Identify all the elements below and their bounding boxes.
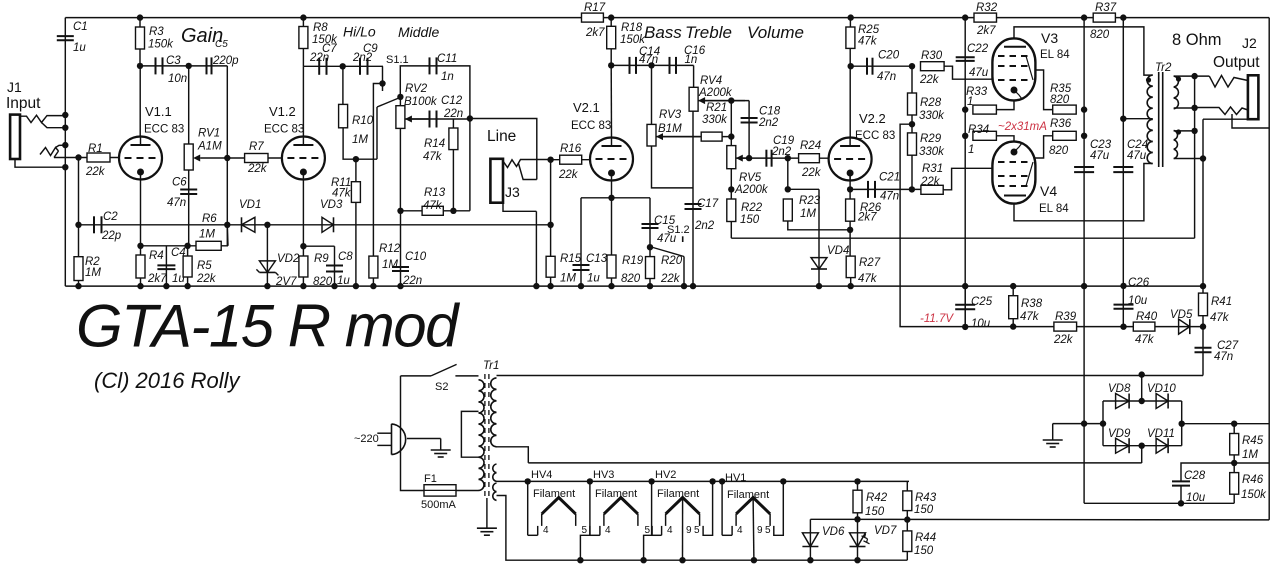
- svg-text:1M: 1M: [1242, 449, 1258, 461]
- wire R12 drop: [372, 256, 374, 286]
- wire R43/R44 junction: [906, 511, 908, 531]
- junction V2.1 cathode 3: [578, 283, 584, 289]
- ground mains: [431, 449, 451, 451]
- svg-text:Volume: Volume: [747, 23, 804, 42]
- wire R13 row: [401, 210, 470, 212]
- svg-text:C12: C12: [441, 95, 463, 107]
- wire Tr2 secondary bottom: [1174, 158, 1203, 160]
- wire R15 drop: [550, 225, 552, 286]
- svg-text:Hi/Lo: Hi/Lo: [343, 24, 376, 40]
- svg-text:R20: R20: [661, 255, 683, 267]
- wire RV1 wiper row / R7 row: [227, 157, 281, 159]
- svg-text:R15: R15: [560, 253, 582, 265]
- svg-text:1M: 1M: [382, 259, 398, 271]
- capacitor C15: [642, 223, 659, 225]
- tube V2.2: [829, 138, 872, 181]
- zener diode VD2: [259, 261, 275, 273]
- wire R33 to V3 cathode: [996, 100, 1014, 109]
- junction output grids 1: [962, 14, 968, 20]
- svg-text:330k: 330k: [702, 114, 728, 126]
- wire R38 top stub: [1012, 286, 1014, 296]
- wire R42 bottom to LEDs: [857, 513, 859, 520]
- junction B+ right 5: [1120, 116, 1126, 122]
- svg-text:V4: V4: [1040, 183, 1057, 199]
- switch S2: [431, 364, 457, 376]
- wire R6 riser: [226, 225, 229, 246]
- svg-text:47k: 47k: [1135, 334, 1155, 346]
- wire Tr2 secondary taps: [1174, 107, 1195, 109]
- svg-text:R34: R34: [968, 124, 989, 136]
- junction tone2 2: [728, 133, 734, 139]
- svg-text:ECC 83: ECC 83: [571, 120, 611, 132]
- junction V2.2 3: [816, 283, 822, 289]
- svg-text:R27: R27: [859, 257, 881, 269]
- junction secondary 1: [1191, 73, 1197, 79]
- wire RV3 column: [651, 65, 653, 124]
- svg-text:VD5: VD5: [1170, 309, 1193, 321]
- junction bias row 2: [1120, 324, 1126, 330]
- svg-text:22k: 22k: [558, 169, 579, 181]
- svg-text:Output: Output: [1213, 54, 1260, 71]
- junction output grids 2: [962, 106, 968, 112]
- svg-text:R30: R30: [921, 50, 943, 62]
- svg-text:VD1: VD1: [239, 199, 261, 211]
- wire R26 to R27: [849, 221, 851, 256]
- svg-text:150k: 150k: [620, 34, 646, 46]
- resistor R15: [546, 256, 555, 277]
- wire screens column: [1083, 18, 1085, 504]
- resistor R43: [903, 491, 912, 511]
- resistor R23: [783, 199, 792, 221]
- svg-text:2n2: 2n2: [352, 52, 373, 64]
- resistor R40: [1133, 322, 1155, 331]
- svg-text:Bass: Bass: [644, 23, 682, 42]
- svg-text:J3: J3: [505, 184, 520, 200]
- junction secondary 2: [1191, 105, 1197, 111]
- resistor R46: [1230, 473, 1239, 495]
- filament HV4: [527, 481, 529, 535]
- tube V1.2: [282, 137, 325, 180]
- junction bridge 5: [1100, 420, 1106, 426]
- svg-text:R40: R40: [1136, 311, 1158, 323]
- resistor R6: [196, 241, 221, 250]
- svg-text:2k7: 2k7: [857, 212, 877, 224]
- wire C21 row to R31: [850, 188, 944, 190]
- wire C20 row V2.2 anode: [850, 65, 912, 67]
- svg-text:1M: 1M: [352, 134, 368, 146]
- wire V2.2 anode riser: [849, 48, 851, 138]
- resistor R22: [727, 199, 736, 222]
- wire V1.2 anode riser: [302, 66, 304, 137]
- svg-text:V2.1: V2.1: [573, 100, 600, 115]
- svg-text:220p: 220p: [212, 55, 239, 67]
- svg-text:R21: R21: [706, 102, 727, 114]
- svg-text:1M: 1M: [800, 208, 816, 220]
- svg-text:R42: R42: [866, 492, 888, 504]
- junction B+ right 2: [1120, 14, 1126, 20]
- junction J1 column 1: [62, 112, 68, 118]
- wire C13 branch: [580, 198, 582, 286]
- svg-text:2n2: 2n2: [694, 220, 715, 232]
- wire RV5 column: [730, 101, 732, 146]
- svg-text:47u: 47u: [969, 67, 989, 79]
- wire RV3 bottom to C17: [652, 146, 694, 188]
- svg-text:R28: R28: [920, 97, 942, 109]
- resistor R9: [299, 256, 308, 277]
- svg-text:HV1: HV1: [725, 472, 746, 484]
- capacitor C24: [1113, 166, 1133, 168]
- svg-text:2n2: 2n2: [758, 117, 779, 129]
- diode VD1: [242, 217, 255, 232]
- capacitor C9: [359, 58, 361, 75]
- svg-text:47n: 47n: [880, 191, 899, 203]
- wire R30 jog to V3 grid: [944, 66, 992, 79]
- svg-text:HV4: HV4: [531, 469, 552, 481]
- wire cathode node row V1.1: [141, 245, 188, 247]
- svg-text:5: 5: [694, 525, 700, 536]
- junction bridge 6: [1179, 421, 1185, 427]
- svg-text:R8: R8: [313, 22, 328, 34]
- resistor R12: [369, 256, 378, 278]
- wire NFB long row: [731, 237, 1194, 239]
- svg-text:1u: 1u: [587, 273, 600, 285]
- wire R10 bottom row: [343, 128, 377, 159]
- resistor R14: [449, 128, 458, 150]
- resistor R27: [846, 256, 855, 278]
- wire heater mid-tap jog: [497, 447, 529, 463]
- svg-text:Tr1: Tr1: [483, 360, 499, 372]
- junction line area 3: [533, 283, 539, 289]
- svg-text:2k7: 2k7: [147, 273, 167, 285]
- svg-text:RV4: RV4: [700, 75, 722, 87]
- wire V4 screen lead: [1035, 136, 1053, 158]
- svg-text:C20: C20: [878, 50, 900, 62]
- wire R9/C8 node row: [303, 245, 334, 247]
- resistor R26: [846, 199, 855, 221]
- wire R6 row: [188, 245, 228, 247]
- svg-text:22k: 22k: [85, 166, 106, 178]
- junction dots heater: [525, 478, 531, 484]
- wire R4 drop: [140, 246, 142, 286]
- resistor R32: [974, 13, 997, 22]
- svg-text:VD7: VD7: [874, 525, 897, 537]
- junction V2.1 cathode 4: [608, 283, 614, 289]
- wire C27 column: [1202, 327, 1204, 375]
- tube V4 EL84: [992, 142, 1035, 204]
- svg-text:R32: R32: [976, 2, 998, 14]
- resistor R45: [1230, 434, 1239, 455]
- svg-text:HV2: HV2: [655, 469, 676, 481]
- resistor R44: [903, 531, 912, 552]
- junction output grids 5: [962, 324, 968, 330]
- junction bridge 4: [1081, 420, 1087, 426]
- capacitor C27: [1195, 347, 1212, 349]
- junction output grids 4: [962, 283, 968, 289]
- LED VD7: [850, 533, 866, 547]
- junction secondary 3: [1191, 128, 1197, 134]
- resistor R10: [339, 104, 348, 127]
- wire R18 top feed: [610, 18, 612, 66]
- svg-text:Tr2: Tr2: [1155, 62, 1172, 74]
- svg-text:Filament: Filament: [657, 488, 699, 500]
- svg-text:1M: 1M: [85, 267, 101, 279]
- svg-text:820: 820: [1090, 29, 1110, 41]
- wire fuse to Tr1 primary: [456, 490, 479, 492]
- svg-text:47k: 47k: [332, 188, 352, 200]
- wire R22 bottom to NFB row: [730, 222, 732, 239]
- wire heater top rail: [497, 480, 910, 482]
- resistor R13: [422, 206, 443, 215]
- svg-text:S1.2: S1.2: [667, 224, 690, 236]
- resistor R35: [1053, 105, 1077, 114]
- resistor R1: [87, 153, 110, 162]
- wire Tr2 primary centre tap: [1123, 18, 1152, 119]
- wire V3 anode run to Tr2 primary top: [1014, 27, 1153, 75]
- capacitor C7: [318, 58, 320, 75]
- junction B+ right 6: [1081, 283, 1087, 289]
- wire HV row end to C27: [1202, 374, 1204, 377]
- capacitor C20: [866, 58, 868, 75]
- wire bridge ground row: [1053, 423, 1103, 425]
- svg-text:VD11: VD11: [1147, 428, 1175, 440]
- svg-text:8 Ohm: 8 Ohm: [1172, 31, 1222, 49]
- svg-text:C10: C10: [405, 251, 427, 263]
- resistor R28: [908, 93, 917, 115]
- svg-text:5: 5: [582, 525, 588, 536]
- svg-text:47n: 47n: [167, 197, 186, 209]
- wire S2 row left: [401, 375, 432, 377]
- wire S1.1 lever riser: [376, 107, 378, 159]
- wire RV5 wiper/C19 row: [736, 157, 829, 159]
- wire R27 drop: [850, 278, 852, 287]
- svg-text:820: 820: [313, 276, 333, 288]
- wire R38 bottom stub: [1012, 319, 1014, 327]
- wire J3 sleeve row: [503, 203, 536, 212]
- capacitor C14: [629, 57, 631, 74]
- resistor R7: [245, 154, 268, 163]
- potentiometer RV3: [647, 124, 656, 146]
- wire C18 column: [748, 101, 750, 159]
- svg-text:Input: Input: [6, 95, 41, 112]
- wire V1.2 cathode drop: [302, 180, 304, 287]
- svg-text:C17: C17: [697, 198, 719, 210]
- resistor R33: [973, 105, 997, 114]
- wire V3 screen lead: [1035, 70, 1053, 110]
- svg-text:47u: 47u: [1127, 150, 1147, 162]
- svg-text:J1: J1: [7, 79, 22, 95]
- svg-text:1n: 1n: [441, 71, 454, 83]
- svg-text:RV5: RV5: [739, 172, 762, 184]
- svg-text:V1.2: V1.2: [269, 104, 296, 119]
- capacitor C10: [392, 266, 409, 268]
- resistor R25: [846, 27, 855, 48]
- svg-text:10u: 10u: [971, 318, 991, 330]
- potentiometer RV5: [727, 146, 736, 169]
- svg-text:Line: Line: [487, 128, 516, 145]
- svg-text:150: 150: [914, 545, 934, 557]
- svg-text:R22: R22: [741, 202, 763, 214]
- capacitor C19: [765, 150, 767, 167]
- svg-text:C6: C6: [172, 177, 187, 189]
- junction heater balance 1: [854, 516, 860, 522]
- wire C2/R2 column: [78, 158, 80, 287]
- wire input grid row to V1.1: [54, 157, 119, 159]
- wire R28 bias column: [900, 124, 912, 326]
- junction bridge 2: [1139, 398, 1145, 404]
- potentiometer RV2: [396, 106, 405, 129]
- capacitor C4: [157, 264, 175, 266]
- resistor R20: [646, 257, 655, 279]
- wire R11 drop: [355, 159, 357, 286]
- wire R16 node drop: [550, 160, 552, 225]
- wire bias -11.7V row: [899, 326, 1203, 328]
- wire V1.1 grid-node row C3/C5: [140, 65, 227, 67]
- junction V2.1 cathode 5: [647, 283, 653, 289]
- wire HV long row: [497, 375, 1204, 377]
- wire VD7 column: [857, 519, 859, 560]
- wire S2 row right: [455, 375, 478, 377]
- capacitor C28: [1172, 480, 1190, 482]
- diode VD11: [1156, 438, 1168, 453]
- svg-text:47k: 47k: [423, 200, 443, 212]
- svg-text:R5: R5: [197, 260, 212, 272]
- svg-text:V1.1: V1.1: [145, 104, 172, 119]
- resistor R21: [701, 132, 722, 141]
- svg-text:4: 4: [737, 525, 743, 536]
- svg-text:150k: 150k: [1241, 489, 1267, 501]
- junction V2.2 7: [848, 63, 854, 69]
- svg-text:R37: R37: [1095, 2, 1117, 14]
- svg-text:22n: 22n: [402, 275, 422, 287]
- wire C28 branch: [1181, 463, 1234, 481]
- wire RV3 wiper/R21 row: [656, 136, 731, 138]
- junction tone2 3: [746, 155, 752, 161]
- svg-text:500mA: 500mA: [421, 499, 457, 511]
- capacitor C25: [955, 304, 975, 306]
- svg-text:22k: 22k: [919, 74, 940, 86]
- junction heater balance 2: [904, 516, 910, 522]
- svg-text:R39: R39: [1055, 311, 1077, 323]
- capacitor C11: [429, 57, 431, 74]
- svg-text:47k: 47k: [423, 151, 443, 163]
- svg-text:R38: R38: [1021, 298, 1043, 310]
- capacitor C18: [741, 117, 758, 119]
- fuse F1: [424, 485, 456, 496]
- svg-text:22k: 22k: [196, 273, 217, 285]
- wire RV2 column: [399, 97, 401, 211]
- junction dots input stage: [75, 154, 81, 160]
- wire C14/C16 top row V2.1: [611, 64, 693, 66]
- svg-text:R10: R10: [352, 115, 374, 127]
- svg-text:C26: C26: [1128, 277, 1150, 289]
- junction B+ right 4: [1081, 133, 1087, 139]
- svg-text:9: 9: [686, 525, 692, 536]
- capacitor C17: [685, 203, 702, 205]
- wire J2 sleeve drop: [1202, 119, 1204, 286]
- svg-text:22k: 22k: [247, 163, 268, 175]
- svg-text:330k: 330k: [919, 146, 945, 158]
- resistor R36: [1053, 131, 1077, 140]
- diode VD10: [1156, 394, 1168, 409]
- svg-text:150: 150: [740, 214, 760, 226]
- junction V2.2 4: [848, 283, 854, 289]
- capacitor C23: [1074, 166, 1094, 168]
- svg-text:(Cl) 2016 Rolly: (Cl) 2016 Rolly: [94, 368, 241, 393]
- wire R46 bottom stub: [1233, 494, 1235, 503]
- svg-text:R18: R18: [621, 22, 643, 34]
- svg-text:2k7: 2k7: [976, 25, 996, 37]
- svg-text:5: 5: [645, 525, 651, 536]
- wire R41 column: [1202, 286, 1204, 327]
- junction line area 2: [547, 222, 553, 228]
- capacitor C1: [57, 35, 74, 37]
- wire R20 drop: [649, 247, 651, 286]
- wire heater balance long row: [810, 518, 1269, 521]
- svg-text:R12: R12: [379, 243, 401, 255]
- svg-text:C22: C22: [967, 43, 989, 55]
- tube V3 EL84: [992, 38, 1035, 100]
- svg-text:EL 84: EL 84: [1040, 49, 1070, 61]
- svg-text:Filament: Filament: [595, 488, 637, 500]
- wire V2.2 cathode drop: [849, 171, 851, 200]
- svg-text:1n: 1n: [685, 54, 698, 66]
- wire R23 bottom jog: [788, 221, 850, 230]
- wire R23 top row to VD4: [788, 188, 819, 190]
- svg-text:RV2: RV2: [405, 83, 428, 95]
- svg-text:10u: 10u: [1128, 295, 1148, 307]
- svg-text:C21: C21: [879, 172, 900, 184]
- junction V2.2 8: [909, 63, 915, 69]
- junction bridge 1: [1139, 371, 1145, 377]
- switch S1.2: [682, 236, 684, 242]
- junction tone2 5: [785, 155, 791, 161]
- svg-text:150: 150: [914, 504, 934, 516]
- junction tone2 4: [728, 186, 734, 192]
- wire V2.1 cathode node row: [581, 197, 650, 199]
- junction tone2 6: [785, 186, 791, 192]
- svg-text:22n: 22n: [443, 108, 463, 120]
- wire J3 sleeve ground drop: [535, 211, 537, 286]
- resistor R30: [921, 62, 945, 71]
- wire R45 row: [1234, 462, 1269, 464]
- wire C24/C26 column: [1122, 119, 1124, 327]
- svg-text:B1M: B1M: [658, 123, 682, 135]
- svg-text:R17: R17: [584, 2, 606, 14]
- junction V2.2 2: [847, 227, 853, 233]
- svg-text:R23: R23: [799, 195, 821, 207]
- wire C28 ground row: [1084, 502, 1234, 504]
- svg-text:HV3: HV3: [593, 469, 614, 481]
- junction V2.2 1: [847, 186, 853, 192]
- svg-text:R46: R46: [1242, 474, 1264, 486]
- wire main C2 long row: [79, 224, 551, 226]
- junction bias row 3: [1200, 323, 1206, 329]
- wire R45 to R46: [1233, 455, 1235, 473]
- wire NFB riser at output: [1194, 75, 1196, 238]
- resistor R38: [1009, 296, 1018, 319]
- svg-text:47k: 47k: [1210, 312, 1230, 324]
- resistor R24: [799, 154, 820, 163]
- capacitor C8: [326, 265, 343, 267]
- svg-text:ECC 83: ECC 83: [264, 124, 304, 136]
- resistor R19: [607, 255, 616, 278]
- potentiometer RV4: [689, 87, 698, 111]
- bridge rectifier box: [1103, 400, 1182, 402]
- svg-text:22k: 22k: [1053, 334, 1074, 346]
- capacitor C2: [93, 216, 95, 233]
- svg-text:R41: R41: [1211, 296, 1232, 308]
- svg-text:22n: 22n: [309, 52, 329, 64]
